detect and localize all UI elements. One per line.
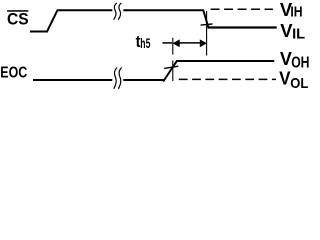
svg-text:OL: OL (290, 76, 308, 92)
label VIH (280, 0, 303, 21)
wire: CS falling edge (203, 10, 209, 29)
wire: CS low segment after fall (VIL level) (208, 26, 277, 28)
wire: EOC rising edge (163, 60, 177, 81)
svg-text:V: V (280, 21, 292, 41)
svg-text:V: V (280, 49, 292, 69)
dashed VIH reference line (211, 8, 273, 10)
tick at EOC rise measurement point (164, 66, 178, 68)
arrowhead left (points left) (173, 39, 180, 47)
svg-text:IL: IL (292, 26, 305, 42)
tick at CS fall measurement point (201, 24, 213, 25)
break symbol on CS high line (curve 2) (118, 3, 121, 20)
label VIL (280, 21, 305, 43)
wire: EOC high segment (VOH level) (176, 60, 274, 62)
label th5 (136, 33, 151, 51)
break symbol on EOC low line (curve 2) (118, 68, 121, 89)
arrow shaft (179, 42, 201, 44)
wire: CS low segment (left) (30, 31, 47, 33)
wire: CS rising edge (47, 10, 58, 33)
wire: CS high segment after break (123, 9, 204, 11)
label VOH (280, 49, 310, 72)
dashed VOL reference line (179, 78, 276, 80)
break symbol on EOC low line (curve 1) (114, 68, 117, 89)
svg-text:IH: IH (290, 5, 302, 21)
svg-text:CS: CS (7, 11, 29, 29)
svg-text:OH: OH (291, 55, 309, 72)
wire: EOC low segment after break (123, 79, 165, 81)
label VOL (279, 69, 308, 92)
label CS (with overline) (7, 10, 29, 29)
wire: EOC low segment before break (33, 79, 112, 81)
vertical reference line at EOC rise (lower segment) (172, 61, 174, 82)
break symbol on CS high line (curve 1) (114, 3, 117, 20)
svg-text:EOC: EOC (0, 64, 27, 81)
vertical reference line at EOC rise (upper segment) (172, 38, 174, 55)
svg-text:h5: h5 (140, 36, 150, 51)
wire: CS high segment before break (57, 9, 112, 11)
svg-text:V: V (279, 69, 290, 89)
vertical reference line at CS fall (206, 11, 208, 56)
label EOC (0, 64, 27, 81)
leader line from th5 label (162, 42, 172, 44)
arrowhead right (points right) (200, 39, 207, 47)
